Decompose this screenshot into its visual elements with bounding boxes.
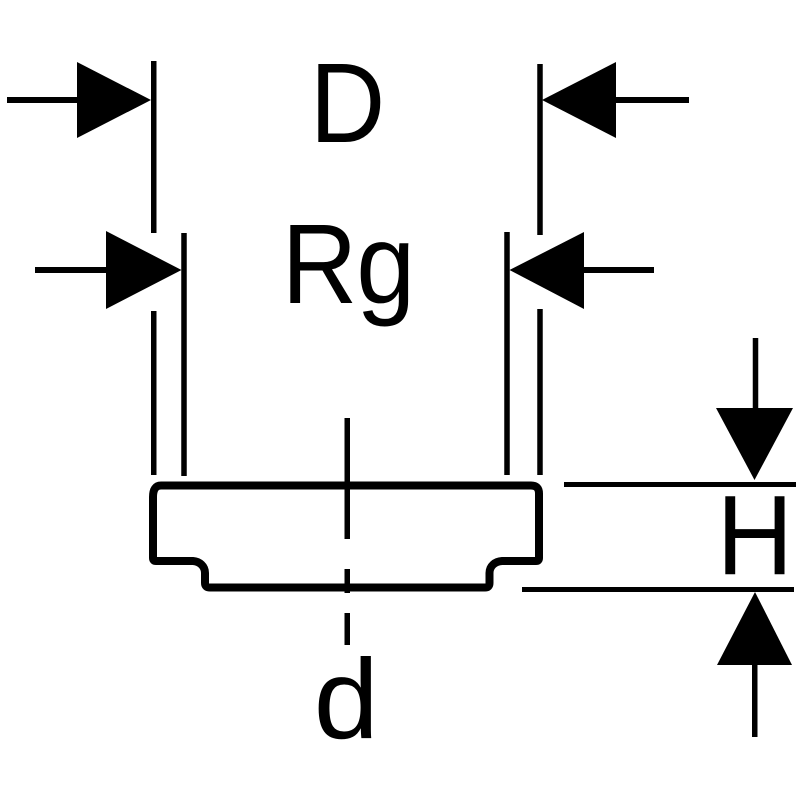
dimension H arrow up stem bbox=[752, 661, 758, 737]
svg-text:H: H bbox=[717, 472, 794, 598]
extension line right D (lower segment) bbox=[537, 309, 543, 475]
svg-text:R: R bbox=[282, 201, 358, 327]
H reference line bottom bbox=[522, 587, 794, 592]
svg-text:d: d bbox=[314, 636, 379, 762]
seal body outline bbox=[153, 486, 539, 588]
dimension H arrowhead down bbox=[716, 408, 793, 480]
extension line left Rg bbox=[181, 233, 187, 476]
dimension D arrow left line bbox=[7, 97, 80, 103]
extension line right Rg bbox=[504, 232, 510, 475]
dimension D arrow right line bbox=[613, 97, 689, 103]
extension line right D (upper segment) bbox=[537, 64, 543, 235]
center line segment 1 bbox=[345, 418, 351, 539]
dimension D arrowhead right bbox=[542, 62, 616, 138]
dimension Rg arrow right line bbox=[581, 267, 654, 273]
svg-text:g: g bbox=[356, 201, 415, 327]
center line segment 3 bbox=[345, 613, 351, 645]
dimension H arrowhead up bbox=[717, 592, 792, 665]
dimension Rg arrow left line bbox=[35, 267, 109, 273]
center line segment 2 bbox=[345, 569, 351, 593]
H reference line top bbox=[564, 482, 796, 487]
extension line left D (upper segment) bbox=[151, 61, 157, 233]
svg-text:D: D bbox=[310, 40, 386, 166]
dimension Rg arrowhead left bbox=[106, 231, 182, 309]
dimension Rg arrowhead right bbox=[510, 232, 585, 309]
dimension D arrowhead left bbox=[77, 62, 151, 138]
extension line left D (lower segment) bbox=[151, 311, 157, 475]
dimension H arrow down stem bbox=[753, 338, 759, 412]
